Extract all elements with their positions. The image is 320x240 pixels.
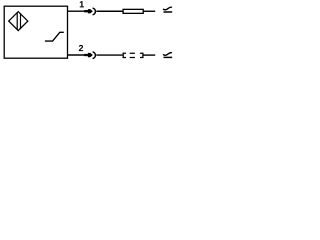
wire load to supply (top) [143, 10, 155, 12]
connector X1 male pin (top) [88, 9, 93, 13]
rhombus inner bar right [20, 13, 22, 29]
load resistor RL (top) [123, 9, 143, 13]
switch contact (NO output) [45, 32, 64, 41]
connector X1 plug stub (top) [84, 10, 89, 12]
sensor body outline [4, 6, 67, 58]
connector X1 socket arc (bottom) [93, 52, 96, 59]
connector X1 plug stub (bottom) [84, 54, 89, 56]
optional load (dashed) left edge [122, 53, 124, 58]
optional load (dashed) top edge dashes [123, 52, 144, 54]
proximity sensor symbol (rhombus) [9, 12, 28, 31]
optional load (dashed) bottom edge dashes [123, 57, 144, 59]
pin 2 label [79, 45, 83, 51]
wire connector to load (top) [96, 10, 122, 12]
AC supply symbol (top) bar [164, 11, 173, 13]
wire connector to load (bottom) [96, 54, 122, 56]
AC supply symbol (bottom) bar [164, 56, 173, 58]
AC supply symbol (top) tilde [163, 7, 172, 10]
rhombus inner bar left [16, 13, 18, 30]
connector X1 male pin (bottom) [88, 53, 93, 57]
wire pin2 from sensor [68, 54, 85, 56]
pin 1 label [80, 1, 84, 7]
wire pin1 from sensor [68, 10, 85, 12]
AC supply symbol (bottom) tilde [163, 53, 172, 56]
wire load to supply (bottom) [143, 54, 155, 56]
connector X1 socket arc (top) [93, 8, 96, 15]
optional load (dashed) right edge [142, 53, 144, 58]
